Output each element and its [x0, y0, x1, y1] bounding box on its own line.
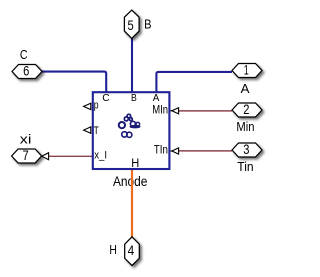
wire xi (physical signal, maroon) [49, 155, 93, 157]
svg-text:C: C [20, 48, 28, 62]
port 2 label Min [236, 120, 254, 134]
block name label "Anode" [113, 173, 148, 189]
svg-text:B: B [144, 18, 151, 32]
svg-text:C: C [102, 92, 110, 104]
svg-text:Tin: Tin [237, 160, 253, 174]
wire Tin (physical signal, maroon) [179, 150, 232, 152]
port 6 (connection port C, left top) [12, 64, 42, 79]
port 4 label H [109, 243, 117, 257]
svg-text:B: B [131, 92, 137, 104]
wire C (conserving, navy) [42, 72, 106, 93]
svg-text:T: T [94, 125, 99, 137]
block pin x_i (label) [94, 149, 107, 161]
svg-text:2: 2 [243, 102, 249, 117]
top molecule cluster [127, 114, 131, 118]
svg-text:6: 6 [23, 64, 29, 79]
svg-text:x_I: x_I [94, 149, 107, 161]
gas molecules icon (block center) [119, 114, 141, 137]
wire Min (physical signal, maroon) [179, 110, 232, 112]
left molecule circle [119, 122, 125, 128]
port 5 (connection port B, top) [124, 10, 139, 38]
svg-text:7: 7 [23, 148, 29, 163]
port 4 (connection port H, bottom) [125, 237, 140, 266]
wire A (conserving, navy) [156, 72, 232, 92]
right molecule cluster with filled base [129, 125, 140, 128]
svg-text:xi: xi [20, 132, 32, 146]
svg-text:Anode: Anode [113, 173, 148, 189]
bottom molecule pair [122, 132, 127, 137]
svg-text:p: p [94, 99, 99, 111]
svg-text:MIn: MIn [152, 103, 168, 117]
svg-text:H: H [109, 243, 117, 257]
port 2 (physical signal port Min, right middle) [232, 102, 262, 117]
port 1 label A [241, 82, 250, 96]
subsystem block Anode (body) [93, 92, 170, 169]
block pin TIn (input triangle + label) [154, 143, 179, 157]
port 5 label B [144, 18, 151, 32]
block pin label H [131, 158, 139, 170]
port 7 label xi [20, 132, 32, 146]
svg-text:1: 1 [244, 62, 249, 77]
block pin MIn (input triangle + label) [152, 103, 178, 117]
wire H (thermal, orange) [131, 169, 133, 238]
block pin label C [102, 92, 110, 104]
svg-text:TIn: TIn [154, 143, 168, 157]
svg-text:5: 5 [127, 18, 133, 33]
block pin label A [153, 92, 160, 104]
svg-text:A: A [241, 82, 250, 96]
svg-text:4: 4 [128, 243, 135, 258]
port 1 (connection port A, right top) [232, 62, 262, 77]
svg-text:H: H [131, 158, 139, 170]
block pin T (output triangle + label) [84, 125, 99, 137]
port 3 label Tin [237, 160, 253, 174]
port 7 input triangle [42, 153, 49, 160]
port 6 label C [20, 48, 28, 62]
block pin p (output triangle + label) [84, 99, 99, 111]
svg-text:3: 3 [243, 142, 249, 157]
svg-text:Min: Min [236, 120, 254, 134]
wire B (conserving, navy) [131, 38, 133, 92]
port 3 (physical signal port Tin, right lower) [232, 142, 262, 157]
port 7 (physical signal port xi, left lower) [12, 148, 42, 163]
block pin label B [131, 92, 137, 104]
